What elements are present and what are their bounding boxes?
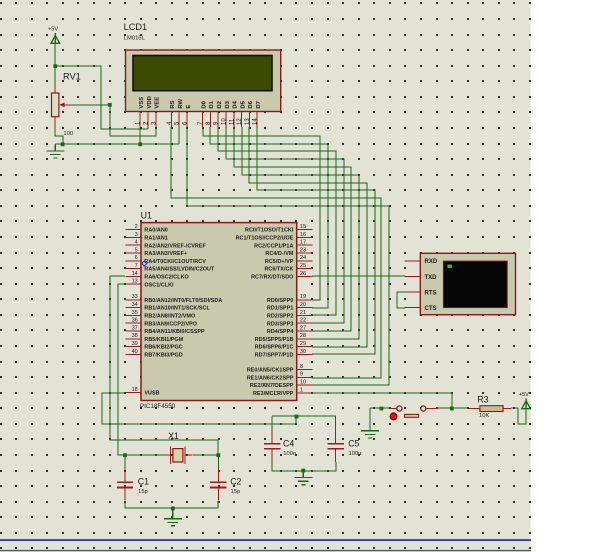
+5V power symbol (RV1)	[51, 33, 60, 43]
svg-text:RV1: RV1	[63, 72, 81, 82]
svg-text:40: 40	[132, 349, 138, 355]
svg-text:25: 25	[300, 263, 306, 269]
pin RV1 top lead	[54, 81, 56, 93]
svg-text:21: 21	[300, 310, 306, 316]
svg-text:RB2/AN8/INT2/VMO: RB2/AN8/INT2/VMO	[144, 314, 195, 320]
pin TXD terminal	[405, 275, 421, 277]
svg-text:1: 1	[300, 387, 303, 393]
svg-text:RC4/D-/VM: RC4/D-/VM	[265, 251, 293, 257]
wire LCD D6 to U1 RD6	[249, 127, 367, 347]
svg-text:C1: C1	[138, 477, 149, 487]
pin 4 U1 (RA2/AN2/VREF-/CVREF)	[125, 244, 141, 246]
svg-text:VSS: VSS	[139, 97, 145, 109]
svg-text:26: 26	[300, 271, 306, 277]
wire RV1 wiper to LCD VEE	[71, 105, 156, 136]
ground (C4/C5)	[294, 471, 312, 485]
svg-text:RA0/AN0: RA0/AN0	[144, 228, 167, 234]
svg-text:15: 15	[300, 224, 306, 230]
svg-text:C2: C2	[230, 477, 241, 487]
svg-text:36: 36	[132, 318, 138, 324]
push button	[389, 408, 397, 410]
svg-text:28: 28	[300, 333, 306, 339]
node RV1-gnd junction	[61, 142, 65, 146]
svg-text:RD6/SPP6/P1C: RD6/SPP6/P1C	[255, 345, 294, 351]
wire LCD E to U1 RE2	[187, 127, 389, 385]
pin 1 U1 (pin1)	[297, 392, 313, 394]
button indicator red dot	[390, 413, 397, 420]
pin 26 U1 (pin26)	[297, 275, 313, 277]
svg-text:R3: R3	[477, 394, 488, 404]
svg-text:23: 23	[300, 247, 306, 253]
svg-text:RE0/AN5/CK1SPP: RE0/AN5/CK1SPP	[247, 368, 294, 374]
svg-text:PIC18F4550: PIC18F4550	[140, 403, 176, 410]
wire LCD RS to U1 RE1	[171, 127, 381, 378]
wire LCD D7 to U1 RD7	[257, 127, 375, 354]
pin 33 U1 (RB0/AN12/INT0/FLT0/SDI/SDA)	[125, 299, 141, 301]
wire node to R3	[452, 407, 468, 409]
pin RV1 bottom lead	[54, 117, 56, 129]
svg-text:2: 2	[135, 224, 138, 230]
pin 3 U1 (RA1/AN1)	[125, 236, 141, 238]
pin 13 LCD (D6)	[248, 112, 250, 128]
svg-text:RB0/AN12/INT0/FLT0/SDI/SDA: RB0/AN12/INT0/FLT0/SDI/SDA	[144, 298, 222, 304]
pin 5 LCD (RW)	[178, 112, 180, 128]
wire LCD D4 to U1 RD4	[234, 127, 351, 331]
pin 4 LCD (RS)	[170, 112, 172, 128]
wire LCD D5 to U1 RD5	[242, 127, 359, 339]
pin 2 U1 (RA0/AN0)	[125, 229, 141, 231]
pin 8 LCD (D1)	[209, 112, 211, 128]
svg-text:3: 3	[135, 232, 138, 238]
svg-text:35: 35	[132, 310, 138, 316]
wire C4-C5 top	[272, 415, 336, 417]
node VUSB cap	[295, 415, 299, 419]
pin 35 U1 (RB2/AN8/INT2/VMO)	[125, 314, 141, 316]
pin 24 U1 (pin24)	[297, 260, 313, 262]
pin CTS terminal	[405, 307, 421, 309]
svg-text:100u: 100u	[349, 451, 362, 457]
svg-text:37: 37	[132, 325, 138, 331]
node +5V junction	[53, 64, 57, 68]
svg-text:16: 16	[300, 232, 306, 238]
node VSS-gnd junction	[138, 142, 142, 146]
svg-text:6: 6	[135, 255, 138, 261]
svg-text:11: 11	[229, 118, 235, 125]
svg-text:RA5/AN4/SS/LVDIN/C2OUT: RA5/AN4/SS/LVDIN/C2OUT	[144, 267, 215, 273]
svg-text:22: 22	[300, 318, 306, 324]
svg-text:RA4/T0CKI/C1OUT/RCV: RA4/T0CKI/C1OUT/RCV	[144, 259, 206, 265]
svg-text:14: 14	[253, 118, 259, 125]
svg-text:RB1/AN10/INT1/SCK/SCL: RB1/AN10/INT1/SCK/SCL	[144, 306, 210, 312]
pin 12 LCD (D5)	[241, 112, 243, 128]
svg-text:D3: D3	[225, 100, 231, 108]
wire R3 to +5V	[511, 408, 526, 424]
svg-text:34: 34	[132, 302, 138, 308]
wire RV1 to ground rail	[55, 129, 63, 144]
svg-text:RXD: RXD	[425, 259, 438, 265]
pin 34 U1 (RB1/AN10/INT1/SCK/SCL)	[125, 307, 141, 309]
svg-text:D7: D7	[256, 100, 262, 108]
pin 22 U1 (pin22)	[297, 322, 313, 324]
node button left	[380, 407, 384, 411]
potentiometer RV1	[52, 93, 59, 117]
pin 36 U1 (RB3/AN9/CCP2/VPO)	[125, 322, 141, 324]
svg-text:13: 13	[132, 279, 138, 285]
pin 14 U1 (RA6/OSC2/CLKO)	[125, 275, 141, 277]
svg-text:8: 8	[300, 364, 303, 370]
svg-text:10: 10	[222, 118, 228, 125]
pin RTS terminal	[405, 291, 421, 293]
wire RTS-CTS loop	[397, 292, 405, 308]
svg-text:VUSB: VUSB	[144, 391, 159, 397]
pin 17 U1 (pin17)	[297, 244, 313, 246]
svg-text:RE1/AN6/CK2SPP: RE1/AN6/CK2SPP	[247, 375, 294, 381]
svg-text:VDD: VDD	[147, 96, 153, 108]
pin 23 U1 (pin23)	[297, 252, 313, 254]
pin 16 U1 (pin16)	[297, 236, 313, 238]
pin RXD terminal	[405, 260, 421, 262]
pin 15 U1 (pin15)	[297, 229, 313, 231]
svg-text:RA1/AN1: RA1/AN1	[144, 236, 167, 242]
svg-text:RD2/SPP2: RD2/SPP2	[267, 314, 293, 320]
wire X1 left	[125, 454, 163, 456]
wire LCD D3 to U1 RD3	[226, 127, 344, 323]
pin 13 U1 (OSC1/CLKI)	[125, 283, 141, 285]
wire down to ground	[369, 408, 371, 431]
svg-text:D5: D5	[240, 100, 246, 108]
svg-text:RB6/KBI2/PGC: RB6/KBI2/PGC	[144, 345, 182, 351]
svg-text:19: 19	[300, 294, 306, 300]
svg-text:38: 38	[132, 333, 138, 339]
sheet border line	[0, 539, 531, 541]
svg-text:24: 24	[300, 255, 306, 261]
pin 19 U1 (pin19)	[297, 299, 313, 301]
terminal cursor	[447, 265, 451, 268]
microcontroller U1 PIC18F4550 body	[141, 223, 297, 401]
svg-text:RC6/TX/CK: RC6/TX/CK	[264, 267, 293, 273]
pin 29 U1 (pin29)	[297, 346, 313, 348]
svg-text:LM016L: LM016L	[124, 36, 146, 42]
pin 6 U1 (RA4/T0CKI/C1OUT/RCV)	[125, 260, 141, 262]
crystal X1	[163, 447, 193, 465]
svg-text:15p: 15p	[138, 489, 148, 495]
svg-text:D6: D6	[248, 100, 254, 108]
pin 37 U1 (RB4/AN11/KBI0/CSSPP)	[125, 330, 141, 332]
svg-text:E: E	[186, 105, 192, 109]
svg-text:13: 13	[245, 118, 251, 125]
ground (button)	[361, 431, 379, 438]
svg-text:12: 12	[237, 118, 243, 125]
svg-text:RC2/CCP1/P1A: RC2/CCP1/P1A	[254, 243, 293, 249]
svg-text:RD5/SPP5/P1B: RD5/SPP5/P1B	[255, 337, 294, 343]
svg-text:RE2/AN7/OESPP: RE2/AN7/OESPP	[250, 383, 294, 389]
node wiper corner	[108, 103, 112, 107]
svg-text:9: 9	[300, 372, 303, 378]
svg-text:CTS: CTS	[425, 306, 437, 312]
pin 9 U1 (pin9)	[297, 376, 313, 378]
svg-text:RB5/KBI1/PGM: RB5/KBI1/PGM	[144, 337, 183, 343]
wire C1-C2 bottom	[125, 501, 218, 508]
svg-text:D4: D4	[233, 100, 239, 108]
svg-text:OSC1/CLKI: OSC1/CLKI	[144, 282, 174, 288]
svg-text:RC5/D+/VP: RC5/D+/VP	[265, 259, 294, 265]
svg-text:RC7/RX/DT/SDO: RC7/RX/DT/SDO	[251, 275, 293, 281]
node cap gnd	[301, 469, 305, 473]
svg-text:C5: C5	[348, 438, 359, 448]
pin 7 U1 (RA5/AN4/SS/LVDIN/C2OUT)	[125, 268, 141, 270]
pin 2 LCD (VDD)	[147, 112, 149, 128]
svg-text:RC1/T1OSI/CCP2/UOE: RC1/T1OSI/CCP2/UOE	[236, 236, 294, 242]
wire RC7/RX to terminal TXD	[312, 275, 405, 277]
pin 3 LCD (VEE)	[155, 112, 157, 128]
svg-text:RC0/T1OSO/T1CKI: RC0/T1OSO/T1CKI	[245, 228, 294, 234]
wire LCD RW down	[178, 127, 180, 144]
node button/R3/MCLR	[450, 407, 454, 411]
node xtal gnd	[171, 507, 175, 511]
wire LCD VDD stub join	[147, 127, 149, 129]
capacitor C5	[335, 417, 337, 431]
svg-text:RB4/AN11/KBI0/CSSPP: RB4/AN11/KBI0/CSSPP	[144, 329, 205, 335]
wire LCD VSS down	[139, 127, 141, 144]
svg-text:RA2/AN2/VREF-/CVREF: RA2/AN2/VREF-/CVREF	[144, 243, 206, 249]
svg-text:RB3/AN9/CCP2/VPO: RB3/AN9/CCP2/VPO	[144, 321, 197, 327]
svg-text:U1: U1	[141, 211, 152, 221]
pin 14 LCD (D7)	[256, 112, 258, 128]
svg-text:RD3/SPP3: RD3/SPP3	[267, 321, 293, 327]
svg-text:+5V: +5V	[519, 392, 529, 398]
pin 39 U1 (RB6/KBI2/PGC)	[125, 346, 141, 348]
svg-text:RS: RS	[170, 100, 176, 108]
svg-text:17: 17	[300, 240, 306, 246]
pin 38 U1 (RB5/KBI1/PGM)	[125, 338, 141, 340]
svg-text:10: 10	[300, 380, 306, 386]
wire gnd to button	[370, 407, 389, 409]
svg-text:LCD1: LCD1	[124, 22, 148, 32]
svg-text:RE3/MCLR/VPP: RE3/MCLR/VPP	[253, 391, 294, 397]
pin 7 LCD (D0)	[202, 112, 204, 128]
virtual terminal body	[420, 253, 515, 314]
pin 21 U1 (pin21)	[297, 314, 313, 316]
svg-text:+5V: +5V	[48, 27, 58, 33]
svg-text:39: 39	[132, 341, 138, 347]
pin 8 U1 (pin8)	[297, 369, 313, 371]
wire LCD D0 to U1 RD0	[203, 127, 320, 300]
svg-text:15p: 15p	[231, 489, 241, 495]
svg-text:RB7/KBI3/PGD: RB7/KBI3/PGD	[144, 353, 182, 359]
pin 11 LCD (D4)	[233, 112, 235, 128]
node X1-C1	[123, 453, 127, 457]
ground (crystal)	[164, 508, 182, 525]
svg-text:VEE: VEE	[155, 97, 161, 109]
svg-text:X1: X1	[168, 431, 179, 441]
svg-text:18: 18	[132, 387, 138, 393]
pin 27 U1 (pin27)	[297, 330, 313, 332]
svg-text:10K: 10K	[479, 413, 489, 419]
wire ground rail	[55, 143, 179, 145]
pin 6 LCD (E)	[186, 112, 188, 128]
RV1 wiper arrow	[63, 104, 71, 106]
pin 1 LCD (VSS)	[139, 112, 141, 128]
svg-text:RD0/SPP0: RD0/SPP0	[267, 298, 293, 304]
pin 25 U1 (pin25)	[297, 268, 313, 270]
pin 40 U1 (RB7/KBI3/PGD)	[125, 353, 141, 355]
svg-text:100n: 100n	[283, 451, 296, 457]
wire C4-C5 bottom	[272, 462, 336, 471]
pin 9 LCD (D2)	[217, 112, 219, 128]
wire +5V to RV1	[54, 43, 56, 81]
svg-text:RD1/SPP1: RD1/SPP1	[267, 306, 293, 312]
pin 18 U1 (VUSB)	[125, 392, 141, 394]
pin 10 LCD (D3)	[225, 112, 227, 128]
svg-text:RTS: RTS	[425, 290, 437, 296]
pin 28 U1 (pin28)	[297, 338, 313, 340]
wire OSC1 to X1 left	[118, 284, 125, 455]
pin 5 U1 (RA3/AN3/VREF+)	[125, 252, 141, 254]
pin 10 U1 (pin10)	[297, 384, 313, 386]
svg-text:RA6/OSC2/CLKO: RA6/OSC2/CLKO	[144, 275, 188, 281]
svg-text:5: 5	[135, 247, 138, 253]
svg-text:4: 4	[135, 240, 138, 246]
wire OSC2 to X1 right	[110, 276, 218, 455]
pin 30 U1 (pin30)	[297, 353, 313, 355]
wire RE3/MCLR to button/R3 node	[312, 393, 452, 408]
wire X1 right	[193, 454, 218, 456]
terminal screen	[443, 261, 507, 308]
marker blue diamond near pin 7	[142, 261, 147, 266]
+5V power symbol (R3)	[522, 398, 531, 408]
capacitor C1	[124, 455, 126, 469]
node X1-C2	[216, 453, 220, 457]
svg-text:C4: C4	[283, 438, 294, 448]
wire +5V to LCD VDD	[55, 66, 148, 129]
svg-text:TXD: TXD	[425, 275, 438, 281]
LCD screen	[133, 56, 272, 91]
svg-text:RA3/AN3/VREF+: RA3/AN3/VREF+	[144, 251, 187, 257]
capacitor C4	[271, 417, 273, 431]
svg-text:27: 27	[300, 325, 306, 331]
wire LCD D2 to U1 RD2	[218, 127, 336, 315]
svg-text:100: 100	[63, 131, 73, 137]
svg-text:30: 30	[300, 349, 306, 355]
svg-text:RD7/SPP7/P1D: RD7/SPP7/P1D	[255, 353, 294, 359]
wire VUSB to C4/C5	[102, 393, 296, 424]
svg-text:D0: D0	[201, 100, 207, 108]
resistor R3	[468, 408, 480, 410]
svg-text:20: 20	[300, 302, 306, 308]
wire button to node	[437, 407, 452, 409]
svg-text:RW: RW	[178, 98, 184, 108]
svg-text:33: 33	[132, 294, 138, 300]
wire LCD D1 to U1 RD1	[210, 127, 328, 308]
svg-text:D2: D2	[217, 100, 223, 108]
svg-text:14: 14	[132, 271, 138, 277]
svg-text:29: 29	[300, 341, 306, 347]
pin 20 U1 (pin20)	[297, 307, 313, 309]
ground (RV1)	[46, 144, 64, 158]
svg-text:RD4/SPP4: RD4/SPP4	[267, 329, 293, 335]
LCD display LCD1 body	[126, 50, 281, 112]
svg-text:D1: D1	[209, 100, 215, 108]
svg-text:7: 7	[135, 263, 138, 269]
capacitor C2	[217, 455, 219, 469]
